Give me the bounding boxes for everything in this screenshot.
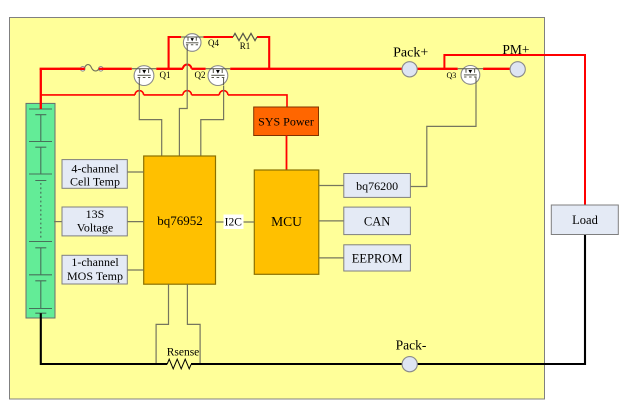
svg-text:1-channel: 1-channel <box>71 255 119 269</box>
svg-text:bq76200: bq76200 <box>356 179 398 193</box>
resistor R1 <box>233 33 257 40</box>
box Load <box>551 205 618 235</box>
fuse F1 <box>60 65 104 72</box>
wire: I2C bus <box>216 221 255 223</box>
wire: Q2 gate <box>201 86 224 157</box>
transistor Q1 <box>132 66 171 86</box>
svg-text:Q4: Q4 <box>208 38 219 48</box>
svg-text:I2C: I2C <box>225 217 243 229</box>
svg-text:Load: Load <box>572 213 598 227</box>
wire: Q3 gate to bq76200 <box>410 84 476 186</box>
svg-text:Voltage: Voltage <box>77 221 113 235</box>
wire: Q1 gate <box>139 85 161 156</box>
wire: sense left from bq76952 <box>156 284 168 364</box>
yellow board area <box>10 18 545 400</box>
svg-text:Q1: Q1 <box>160 70 171 80</box>
svg-text:SYS Power: SYS Power <box>258 115 314 129</box>
battery pack B1 <box>26 103 55 318</box>
wire: 4-channel to bq76952 <box>127 171 143 173</box>
wire: branch to load <box>444 55 585 205</box>
svg-text:Q3: Q3 <box>447 71 457 80</box>
svg-text:Rsense: Rsense <box>167 347 200 359</box>
wire: battery+ red vertical <box>40 69 42 109</box>
wire: Q4 gate <box>179 51 187 156</box>
svg-text:MCU: MCU <box>271 214 302 229</box>
SYS Power box <box>254 107 319 136</box>
box 4-channel Cell Temp <box>62 160 127 189</box>
svg-text:13S: 13S <box>86 207 105 221</box>
svg-text:Q2: Q2 <box>195 70 206 80</box>
cell 1 plates <box>29 109 52 142</box>
cell 6 plates <box>29 309 52 314</box>
cell 4 plates <box>29 242 52 275</box>
box EEPROM <box>344 245 411 271</box>
transistor Q2 <box>195 66 231 86</box>
MCU box U2 <box>254 170 318 274</box>
wire: battery to 13S box <box>54 221 62 223</box>
cell 3 plates <box>29 174 52 181</box>
svg-text:PM+: PM+ <box>502 42 529 57</box>
hop over Q4 gate <box>183 65 192 69</box>
svg-text:EEPROM: EEPROM <box>352 251 403 265</box>
wire: MCU to CAN <box>319 220 344 222</box>
box 1-channel MOS Temp <box>62 255 127 284</box>
wire: precharge loop red <box>169 37 270 69</box>
box 13S Voltage <box>62 207 127 236</box>
wire: main red rail y=68.8 <box>40 65 511 69</box>
svg-text:R1: R1 <box>240 41 251 51</box>
svg-text:MOS Temp: MOS Temp <box>67 269 123 283</box>
wire: battery- black <box>41 313 167 364</box>
svg-text:Pack+: Pack+ <box>393 46 428 61</box>
wire: second red rail y=94.9 <box>40 91 287 107</box>
wire: SYS Power to MCU red <box>286 136 288 171</box>
cell 2 plates <box>29 142 52 175</box>
box CAN <box>344 207 411 235</box>
wire: MOS Temp to bq76952 <box>127 269 143 271</box>
wire: pack- rail black <box>191 235 585 365</box>
transistor Q4 <box>181 34 219 52</box>
svg-text:4-channel: 4-channel <box>71 161 119 175</box>
cell 5 plates <box>29 275 52 309</box>
wire: MCU to bq76200 <box>319 185 344 187</box>
svg-text:Cell Temp: Cell Temp <box>70 174 120 188</box>
svg-text:CAN: CAN <box>364 214 390 228</box>
node I2C label <box>224 215 244 230</box>
svg-text:bq76952: bq76952 <box>157 213 203 228</box>
wire: sense right from bq76952 <box>187 284 200 364</box>
resistor Rsense <box>167 359 191 369</box>
transistor Q3 <box>447 66 484 85</box>
wire: MCU to EEPROM <box>319 257 344 259</box>
dotted continuation <box>40 183 42 240</box>
wire: 13S to bq76952 <box>127 221 143 223</box>
box bq76200 <box>344 174 411 198</box>
bq76952 box U1 <box>144 156 216 284</box>
svg-text:Pack-: Pack- <box>396 338 427 353</box>
